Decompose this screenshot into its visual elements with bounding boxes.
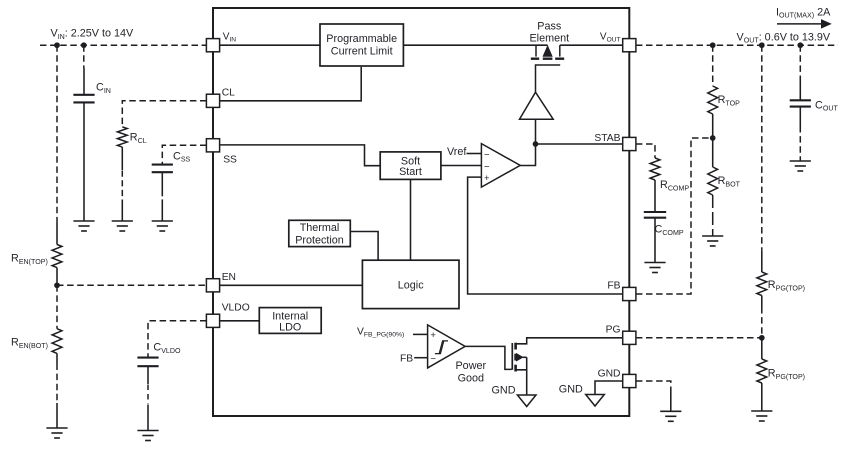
- wire: error amp output to buffer and STAB node: [520, 119, 535, 165]
- ground for CVLDO: [137, 430, 158, 432]
- wire: dashed EN wire to EN pin: [57, 284, 207, 286]
- wire: EN pin to logic block: [220, 284, 363, 286]
- wire: comparator output to PG FET gate: [465, 346, 511, 369]
- svg-text:Vref: Vref: [447, 146, 467, 158]
- node: PG pull-up tap: [759, 335, 765, 341]
- op-amp U1 error amplifier: [481, 144, 520, 188]
- wire: dashed EN node down to REN(BOT): [56, 285, 58, 328]
- wire: PG FET source to ground: [516, 357, 527, 395]
- wire: FB pin external dashed to divider tap: [636, 138, 711, 294]
- svg-text:Element: Element: [529, 33, 569, 45]
- svg-text:FB: FB: [400, 353, 413, 364]
- capacitor CCOMP: [644, 211, 666, 213]
- ground for RBOT: [702, 235, 723, 237]
- pin GND: [623, 374, 636, 387]
- wire: CL pin to current limit block bottom: [220, 67, 362, 101]
- wire: RCOMP to CCOMP: [654, 180, 656, 211]
- svg-text:Start: Start: [399, 166, 422, 178]
- svg-text:RPG(TOP): RPG(TOP): [768, 279, 805, 292]
- wire: dashed VOUT drop to RTOP: [712, 45, 714, 86]
- node: VIN rail junction for REN divider: [54, 42, 60, 48]
- block: Programmable Current Limit: [320, 24, 403, 66]
- wire: dashed RPG upper to PG node: [761, 296, 763, 308]
- svg-text:CVLDO: CVLDO: [153, 342, 181, 355]
- comparator U2 power good: [428, 325, 466, 368]
- wire: REN(BOT) to ground dashed: [56, 353, 58, 363]
- capacitor CVLDO: [137, 357, 158, 359]
- node: VOUT junction RPG: [759, 42, 765, 48]
- pin VLDO: [206, 314, 219, 327]
- pin STAB: [623, 137, 636, 150]
- svg-text:REN(BOT): REN(BOT): [11, 337, 48, 350]
- svg-text:SS: SS: [223, 154, 237, 165]
- resistor RCOMP: [650, 158, 660, 180]
- svg-text:Programmable: Programmable: [326, 33, 397, 45]
- block: Soft Start: [380, 152, 441, 180]
- svg-text:RTOP: RTOP: [718, 94, 741, 107]
- resistor RPG(TOP) upper: [757, 272, 767, 296]
- node: VOUT junction RTOP: [710, 42, 716, 48]
- svg-text:VIN: 2.25V to 14V: VIN: 2.25V to 14V: [51, 28, 135, 41]
- wire: dashed drop to REN(TOP): [56, 45, 58, 223]
- ground for PG FET: [517, 395, 536, 407]
- pin VOUT: [623, 39, 636, 52]
- capacitor CIN: [73, 94, 94, 96]
- wire: to CIN top: [83, 68, 85, 94]
- svg-text:RPG(TOP): RPG(TOP): [768, 368, 805, 381]
- svg-text:−: −: [484, 161, 490, 172]
- svg-text:EN: EN: [222, 272, 236, 283]
- node: STAB / buffer input junction: [533, 141, 539, 147]
- capacitor CSS: [152, 164, 173, 166]
- node: VIN rail junction for CIN: [81, 42, 87, 48]
- wire: thermal protection to logic: [350, 232, 378, 261]
- wire: soft start down to logic: [410, 179, 412, 260]
- wire: VIN pin to current limit block: [220, 44, 320, 46]
- wire: VOUT rail dashed: [636, 44, 838, 46]
- svg-text:RBOT: RBOT: [718, 175, 741, 188]
- svg-text:FB: FB: [607, 280, 620, 291]
- svg-text:Good: Good: [458, 372, 484, 384]
- svg-text:GND: GND: [598, 368, 621, 379]
- svg-text:COUT: COUT: [815, 99, 838, 112]
- svg-text:REN(TOP): REN(TOP): [11, 253, 48, 266]
- pin EN: [206, 279, 219, 292]
- svg-text:Protection: Protection: [295, 235, 344, 247]
- wire: VFB_PG to comparator plus: [413, 333, 428, 335]
- wire: CVLDO to ground dashed: [147, 367, 149, 384]
- wire: REN(TOP) to EN node: [56, 268, 58, 286]
- block: Thermal Protection: [289, 220, 351, 246]
- wire: dashed VOUT drop to RPG(TOP): [761, 45, 763, 250]
- ground for COUT: [790, 160, 811, 162]
- resistor RBOT: [708, 167, 718, 195]
- node: EN divider tap: [54, 282, 60, 288]
- node: VOUT junction COUT: [797, 42, 803, 48]
- wire: RBOT to ground: [712, 195, 714, 236]
- svg-text:Thermal: Thermal: [300, 222, 340, 234]
- transistor Q1 pass element PMOS: [403, 44, 547, 46]
- wire: PG FET drain to PG pin: [516, 338, 623, 344]
- wire: FB to comparator minus: [414, 357, 427, 359]
- wire: pass element drain to VOUT pin: [560, 44, 623, 46]
- svg-text:−: −: [430, 354, 436, 365]
- block: Internal LDO: [259, 308, 321, 334]
- resistor RPG(TOP) lower: [757, 359, 767, 383]
- svg-text:−: −: [484, 149, 490, 160]
- pin CL: [206, 94, 219, 107]
- svg-text:Pass: Pass: [537, 20, 562, 32]
- wire: dashed CL wire to RCL: [122, 101, 206, 127]
- IC boundary box: [213, 8, 629, 416]
- wire: CCOMP to ground: [654, 219, 656, 263]
- ground for CCOMP: [644, 262, 665, 264]
- svg-text:CL: CL: [222, 88, 235, 99]
- svg-text:IOUT(MAX) 2A: IOUT(MAX) 2A: [776, 6, 831, 19]
- ground for REN(BOT): [46, 427, 67, 429]
- pin VIN: [206, 39, 219, 52]
- resistor RTOP: [708, 86, 718, 114]
- wire: PG pin external dashed: [636, 337, 762, 339]
- svg-text:VFB_PG(90%): VFB_PG(90%): [357, 326, 404, 338]
- pin PG: [623, 331, 636, 344]
- resistor RCL: [117, 127, 127, 147]
- svg-text:Power: Power: [455, 360, 486, 372]
- pin SS: [206, 139, 219, 152]
- block: Logic: [362, 260, 459, 308]
- wire: Vref to error amp: [467, 153, 482, 155]
- svg-text:VLDO: VLDO: [222, 303, 250, 314]
- wire: FB node to RBOT: [712, 138, 714, 167]
- svg-text:PG: PG: [606, 324, 621, 335]
- ground external at GND pin: [660, 410, 681, 412]
- wire: VLDO pin to internal LDO block: [220, 320, 260, 322]
- hysteresis symbol inside comparator: [435, 341, 444, 354]
- buffer amplifier to pass gate: [520, 92, 554, 119]
- svg-text:VOUT: VOUT: [600, 31, 621, 43]
- wire: GND pin to internal ground: [595, 381, 622, 395]
- wire: input rail dashed: [40, 44, 207, 46]
- wire: FB pin to error amp plus input: [468, 177, 623, 294]
- capacitor COUT: [790, 99, 811, 101]
- svg-text:LDO: LDO: [279, 322, 301, 334]
- pin FB: [623, 287, 636, 300]
- svg-text:CIN: CIN: [96, 82, 111, 95]
- wire: dashed SS wire to CSS: [162, 145, 206, 164]
- ground at GND pin: [586, 395, 605, 407]
- wire: GND pin external dashed to ground: [636, 381, 671, 389]
- svg-text:CCOMP: CCOMP: [655, 224, 684, 237]
- wire: soft start output to error amp: [441, 165, 482, 167]
- wire: SS pin to soft start block: [220, 145, 381, 166]
- transistor Q2 PG open-drain NFET: [511, 343, 513, 370]
- wire: dashed VIN drop to CIN: [83, 45, 85, 68]
- ground for CIN: [73, 220, 94, 222]
- wire: CIN to ground: [83, 103, 85, 221]
- wire: STAB pin external dashed to RCOMP: [636, 144, 655, 158]
- svg-text:CSS: CSS: [173, 150, 191, 163]
- wire: RTOP to FB node: [712, 114, 714, 138]
- svg-text:GND: GND: [492, 384, 516, 396]
- svg-text:RCL: RCL: [130, 132, 147, 145]
- resistor REN(BOT): [52, 329, 62, 354]
- svg-text:RCOMP: RCOMP: [660, 179, 689, 192]
- wire: dashed VOUT drop to COUT: [799, 45, 801, 78]
- wire: STAB node to STAB pin: [536, 143, 623, 145]
- wire: dashed VLDO wire to CVLDO: [148, 321, 207, 357]
- svg-text:+: +: [430, 330, 436, 341]
- svg-text:Internal: Internal: [272, 310, 308, 322]
- node: feedback divider tap: [710, 135, 716, 141]
- svg-text:Logic: Logic: [398, 279, 424, 291]
- ground for RCL: [112, 220, 133, 222]
- svg-text:Current Limit: Current Limit: [331, 45, 393, 57]
- wire: RCL to ground dashed: [121, 147, 123, 170]
- wire: RPG lower to ground: [761, 383, 763, 411]
- svg-text:+: +: [484, 173, 490, 184]
- svg-text:VOUT: 0.6V to 13.9V: VOUT: 0.6V to 13.9V: [737, 31, 831, 44]
- wire: COUT to ground: [799, 107, 801, 126]
- arrow: output current direction: [777, 23, 823, 25]
- wire: PG node to RPG lower: [761, 338, 763, 359]
- ground for CSS: [152, 220, 173, 222]
- wire: CSS to ground: [161, 173, 163, 197]
- wire: buffer to pass element gate: [536, 65, 561, 92]
- svg-text:STAB: STAB: [594, 133, 620, 144]
- svg-text:VIN: VIN: [223, 31, 237, 43]
- ground for RPG divider: [751, 410, 772, 412]
- resistor REN(TOP): [52, 245, 62, 268]
- svg-text:GND: GND: [559, 384, 583, 396]
